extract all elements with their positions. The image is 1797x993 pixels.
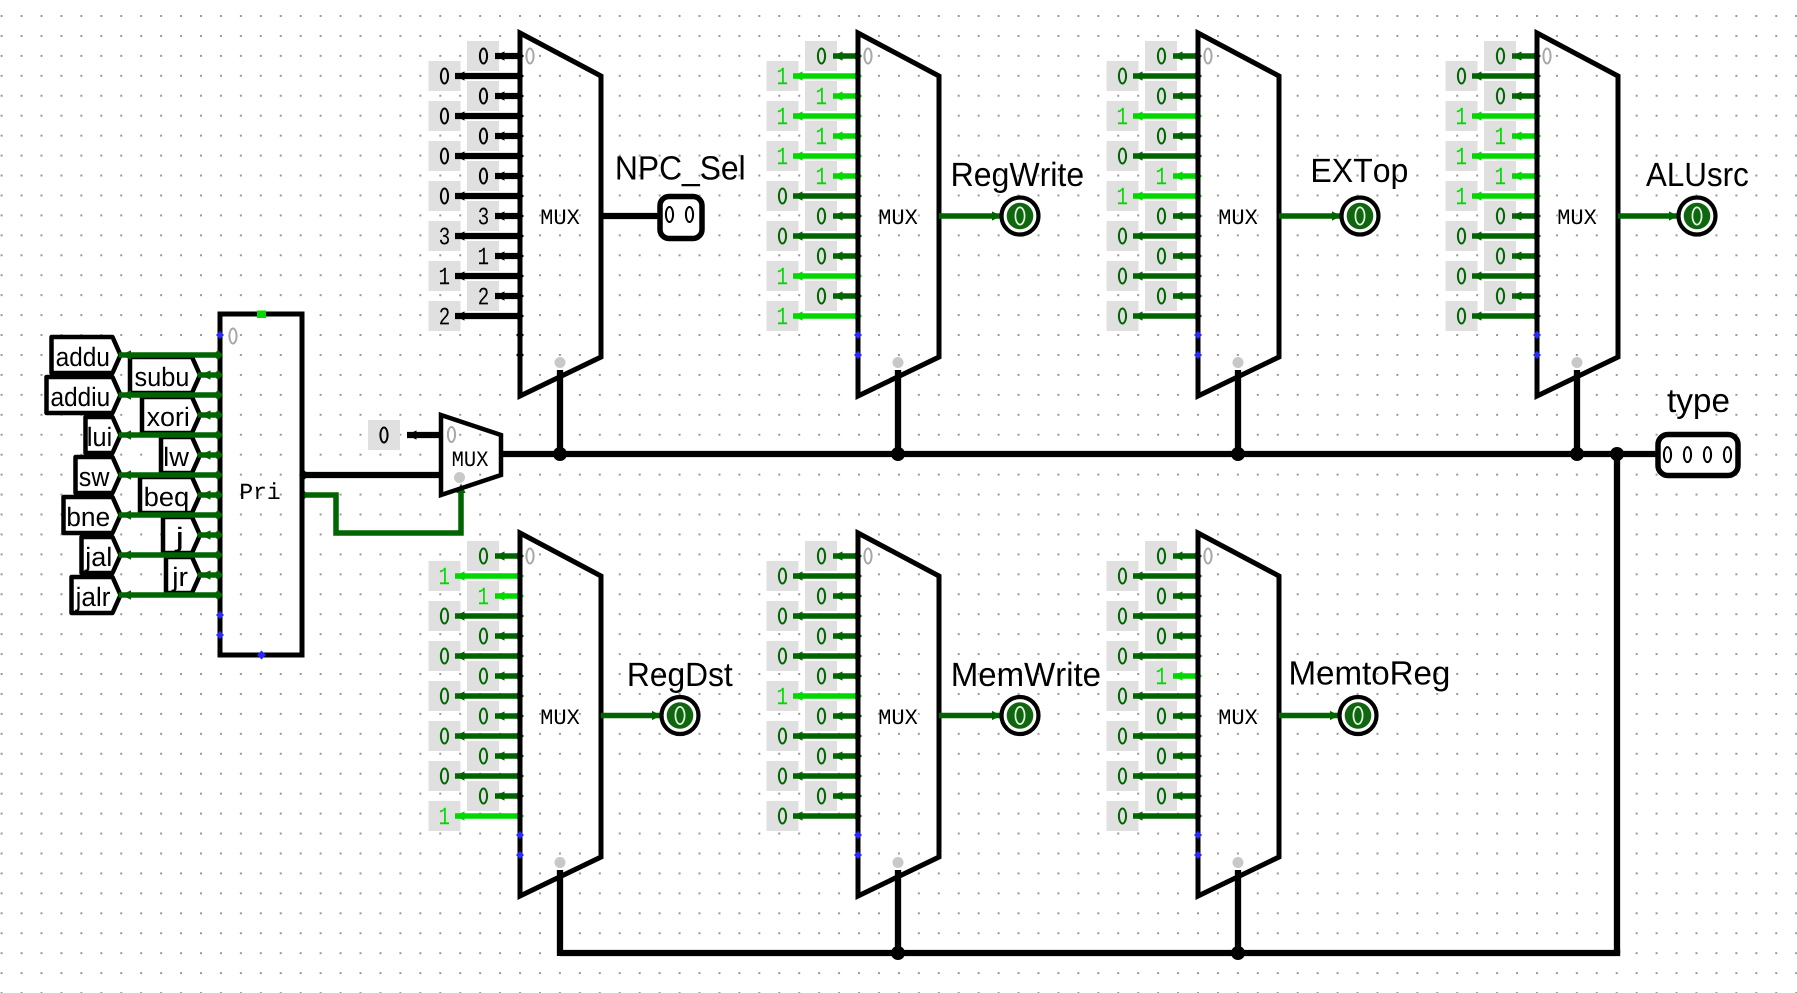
constant 0 (input 10 of MemtoReg mux) bbox=[1145, 741, 1202, 771]
mux U8: small 2-input multiplexer body bbox=[441, 415, 501, 495]
constant 0 (input 6 of NPC_Sel mux) bbox=[467, 161, 524, 191]
junction at NPC_Sel select bbox=[553, 447, 567, 461]
constant 0 (input 10 of EXTop mux) bbox=[1145, 241, 1202, 271]
constant 0 (input 1 of NPC_Sel mux) bbox=[429, 61, 525, 91]
constant 0 (input 3 of RegDst mux) bbox=[429, 601, 525, 631]
constant 1 (input 2 of RegDst mux) bbox=[467, 581, 524, 611]
constant 0 (input 0 of NPC_Sel mux) bbox=[467, 41, 524, 71]
constant 0 (input 10 of RegWrite mux) bbox=[805, 241, 862, 271]
unconnected input stubs of MemtoReg mux bbox=[1194, 831, 1202, 859]
unconnected input stubs of MemWrite mux bbox=[854, 831, 862, 859]
constant 1 (input 5 of ALUsrc mux) bbox=[1446, 141, 1542, 171]
wire: input pin bne to Pri bbox=[119, 510, 224, 520]
constant 0 (input 1 of EXTop mux) bbox=[1107, 61, 1203, 91]
input pin addu bbox=[52, 337, 121, 373]
constant 0 (input 13 of MemtoReg mux) bbox=[1107, 801, 1203, 831]
constant 1 (input 6 of RegWrite mux) bbox=[805, 161, 862, 191]
constant 0 (input 11 of ALUsrc mux) bbox=[1446, 261, 1542, 291]
input pin sw bbox=[76, 457, 121, 493]
wire: select of NPC_Sel mux to type bus bbox=[557, 370, 563, 457]
wire: select of EXTop mux to type bus bbox=[1235, 370, 1241, 457]
constant 1 (input 6 of MemtoReg mux) bbox=[1145, 661, 1202, 691]
wire: input pin jalr to Pri bbox=[119, 590, 224, 600]
Pri top pin (green) bbox=[257, 311, 266, 319]
constant 1 (input 6 of EXTop mux) bbox=[1145, 161, 1202, 191]
constant 0 (input 9 of EXTop mux) bbox=[1107, 221, 1203, 251]
wire: select of RegDst mux to bottom bus bbox=[557, 870, 563, 956]
constant 0 (input 1 of MemWrite mux) bbox=[767, 561, 863, 591]
constant 0 (input 4 of MemWrite mux) bbox=[805, 621, 862, 651]
input pin lw bbox=[161, 437, 200, 473]
constant 1 (input 5 of RegWrite mux) bbox=[767, 141, 863, 171]
constant 0 (input 4 of NPC_Sel mux) bbox=[467, 121, 524, 151]
wire: bottom bus horizontal bbox=[560, 950, 1620, 956]
constant 3 (input 8 of NPC_Sel mux) bbox=[467, 201, 524, 231]
constant 0 (input 9 of RegWrite mux) bbox=[767, 221, 863, 251]
label type bbox=[1668, 390, 1729, 419]
constant 0 (input 2 of EXTop mux) bbox=[1145, 81, 1202, 111]
constant 1 (input 3 of RegWrite mux) bbox=[767, 101, 863, 131]
constant 0 (input 12 of ALUsrc mux) bbox=[1484, 281, 1541, 311]
wire: MemWrite mux output to LED bbox=[939, 711, 1002, 720]
label MemtoReg bbox=[1291, 661, 1448, 691]
wire: RegDst mux output to LED bbox=[601, 711, 662, 720]
constant 0 (input 7 of RegWrite mux) bbox=[767, 181, 863, 211]
mux EXTop: 16-input multiplexer body bbox=[1198, 33, 1279, 396]
wire: Pri output (4-bit) to small mux input 1 bbox=[299, 470, 443, 480]
mux NPC_Sel: 16-input multiplexer body bbox=[520, 33, 601, 396]
constant 0 (input 3 of MemWrite mux) bbox=[767, 601, 863, 631]
unconnected input stubs of EXTop mux bbox=[1194, 331, 1202, 359]
constant 0 (input 12 of MemWrite mux) bbox=[805, 781, 862, 811]
output LED MemWrite (value 0) bbox=[1002, 697, 1039, 734]
constant 1 (input 3 of EXTop mux) bbox=[1107, 101, 1203, 131]
constant 1 (input 13 of RegDst mux) bbox=[429, 801, 525, 831]
constant 0 (input 11 of MemWrite mux) bbox=[767, 761, 863, 791]
input pin bne bbox=[64, 497, 121, 533]
constant 0 (input 0 of MemWrite mux) bbox=[805, 541, 862, 571]
constant 0 (input 9 of MemtoReg mux) bbox=[1107, 721, 1203, 751]
wire: select of MemWrite mux to bottom bus bbox=[895, 870, 901, 956]
constant 0 (input 3 of MemtoReg mux) bbox=[1107, 601, 1203, 631]
wire: select of RegWrite mux to type bus bbox=[895, 370, 901, 457]
constant 2 (input 12 of NPC_Sel mux) bbox=[467, 281, 524, 311]
output LED RegDst (value 0) bbox=[662, 697, 699, 734]
junction at ALUsrc select bbox=[1570, 447, 1584, 461]
wire: input pin addiu to Pri bbox=[119, 390, 224, 400]
constant 0 (input 8 of RegDst mux) bbox=[467, 701, 524, 731]
constant 0 (input 13 of MemWrite mux) bbox=[767, 801, 863, 831]
wire: input pin addu to Pri bbox=[119, 350, 224, 360]
input pin xori bbox=[142, 397, 200, 433]
mux MemtoReg: 16-input multiplexer body bbox=[1198, 533, 1279, 896]
junction at MemWrite select bbox=[891, 946, 905, 960]
unconnected input stubs of RegWrite mux bbox=[854, 331, 862, 359]
constant 0 (input 5 of EXTop mux) bbox=[1107, 141, 1203, 171]
label EXTop bbox=[1313, 159, 1407, 189]
constant 3 (input 9 of NPC_Sel mux) bbox=[429, 221, 525, 251]
constant 0 (input 0 of EXTop mux) bbox=[1145, 41, 1202, 71]
output LED ALUsrc (value 0) bbox=[1679, 198, 1716, 235]
input pin beq bbox=[140, 477, 200, 513]
constant 0 (input 11 of RegDst mux) bbox=[429, 761, 525, 791]
constant 0 (input 3 of NPC_Sel mux) bbox=[429, 101, 525, 131]
constant 0 (input 5 of MemtoReg mux) bbox=[1107, 641, 1203, 671]
constant 0 (input 9 of ALUsrc mux) bbox=[1446, 221, 1542, 251]
constant 0 (input 7 of NPC_Sel mux) bbox=[429, 181, 525, 211]
wire: input pin beq to Pri bbox=[198, 490, 223, 500]
unconnected input stubs of ALUsrc mux bbox=[1533, 331, 1541, 359]
constant 0 (input 6 of MemWrite mux) bbox=[805, 661, 862, 691]
label RegDst bbox=[630, 663, 733, 693]
input pin jal bbox=[82, 537, 121, 573]
wire: input pin lw to Pri bbox=[198, 450, 223, 460]
wire: EXTop mux output to LED bbox=[1279, 211, 1342, 220]
input pin j bbox=[163, 517, 200, 553]
constant 0 (input 8 of RegWrite mux) bbox=[805, 201, 862, 231]
constant 0 (input 11 of EXTop mux) bbox=[1107, 261, 1203, 291]
input pin lui bbox=[86, 417, 121, 453]
constant 1 (input 6 of ALUsrc mux) bbox=[1484, 161, 1541, 191]
constant 0 (input 5 of RegDst mux) bbox=[429, 641, 525, 671]
constant 1 (input 13 of RegWrite mux) bbox=[767, 301, 863, 331]
constant 0 (input 8 of ALUsrc mux) bbox=[1484, 201, 1541, 231]
constant 0 (input 4 of RegDst mux) bbox=[467, 621, 524, 651]
constant 1 (input 1 of RegWrite mux) bbox=[767, 61, 863, 91]
constant 1 (input 7 of ALUsrc mux) bbox=[1446, 181, 1542, 211]
input pin subu bbox=[130, 357, 200, 393]
constant 0 (input 8 of MemtoReg mux) bbox=[1145, 701, 1202, 731]
output LED MemtoReg (value 0) bbox=[1340, 697, 1377, 734]
wire: ALUsrc mux output to LED bbox=[1618, 211, 1679, 220]
input pin addiu bbox=[47, 377, 121, 413]
output pin type (value 0 0 0 0) bbox=[1658, 435, 1738, 476]
junction at bus corner to type bbox=[1610, 447, 1624, 461]
wire: bus vertical right side bbox=[1614, 454, 1620, 953]
constant 1 (input 1 of RegDst mux) bbox=[429, 561, 525, 591]
constant 1 (input 10 of NPC_Sel mux) bbox=[467, 241, 524, 271]
wire: select of ALUsrc mux to type bus bbox=[1574, 370, 1580, 457]
label ALUsrc bbox=[1646, 163, 1748, 186]
constant 0 (input 11 of MemtoReg mux) bbox=[1107, 761, 1203, 791]
priority encoder Pri body bbox=[220, 314, 302, 655]
constant 0 (input 5 of NPC_Sel mux) bbox=[429, 141, 525, 171]
wire: input pin subu to Pri bbox=[198, 370, 223, 380]
constant 1 (input 11 of NPC_Sel mux) bbox=[429, 261, 525, 291]
wire: main type bus horizontal bbox=[501, 451, 1658, 457]
constant 0 (input 0 of MemtoReg mux) bbox=[1145, 541, 1202, 571]
constant 0 (input 2 of MemtoReg mux) bbox=[1145, 581, 1202, 611]
constant 1 (input 7 of MemWrite mux) bbox=[767, 681, 863, 711]
wire: NPC_Sel mux output to probe bbox=[601, 213, 662, 219]
wire: MemtoReg mux output to LED bbox=[1279, 711, 1340, 720]
constant 1 (input 7 of EXTop mux) bbox=[1107, 181, 1203, 211]
constant 0 (input 7 of MemtoReg mux) bbox=[1107, 681, 1203, 711]
unconnected input stubs of NPC_Sel mux bbox=[516, 331, 524, 359]
mux RegDst: 16-input multiplexer body bbox=[520, 533, 601, 896]
constant 1 (input 4 of ALUsrc mux) bbox=[1484, 121, 1541, 151]
junction at MemtoReg select bbox=[1231, 946, 1245, 960]
constant 0 (input 12 of RegDst mux) bbox=[467, 781, 524, 811]
constant 0 (input 12 of RegWrite mux) bbox=[805, 281, 862, 311]
constant 0 (input 10 of RegDst mux) bbox=[467, 741, 524, 771]
constant 1 (input 2 of RegWrite mux) bbox=[805, 81, 862, 111]
wire: select of MemtoReg mux to bottom bus bbox=[1235, 870, 1241, 956]
constant 0 (input 13 of ALUsrc mux) bbox=[1446, 301, 1542, 331]
constant 0 (input 10 of MemWrite mux) bbox=[805, 741, 862, 771]
constant 0 (input 8 of EXTop mux) bbox=[1145, 201, 1202, 231]
constant 0 (input 6 of RegDst mux) bbox=[467, 661, 524, 691]
constant 0 (input 8 of MemWrite mux) bbox=[805, 701, 862, 731]
label RegWrite bbox=[953, 162, 1083, 193]
wire: input pin jal to Pri bbox=[119, 550, 224, 560]
constant 0 (input 4 of EXTop mux) bbox=[1145, 121, 1202, 151]
constant 0 (input 9 of RegDst mux) bbox=[429, 721, 525, 751]
input pin jr bbox=[166, 557, 200, 593]
constant 0 (input 0 of RegWrite mux) bbox=[805, 41, 862, 71]
Pri unconnected input stub 0 bbox=[216, 331, 224, 339]
constant 0 (input 0 of small mux) bbox=[368, 420, 443, 450]
output probe NPC_Sel (value 0 0) bbox=[660, 197, 702, 239]
constant 0 (input 2 of NPC_Sel mux) bbox=[467, 81, 524, 111]
junction at RegWrite select bbox=[891, 447, 905, 461]
label MemWrite bbox=[954, 662, 1100, 687]
mux ALUsrc: 16-input multiplexer body bbox=[1537, 33, 1618, 396]
constant 0 (input 7 of RegDst mux) bbox=[429, 681, 525, 711]
Pri unconnected bottom stubs bbox=[216, 611, 266, 660]
output LED RegWrite (value 0) bbox=[1002, 198, 1039, 235]
input pin jalr bbox=[72, 577, 121, 613]
constant 0 (input 10 of ALUsrc mux) bbox=[1484, 241, 1541, 271]
constant 0 (input 4 of MemtoReg mux) bbox=[1145, 621, 1202, 651]
constant 0 (input 12 of EXTop mux) bbox=[1145, 281, 1202, 311]
wire: input pin sw to Pri bbox=[119, 470, 224, 480]
unconnected input stubs of RegDst mux bbox=[516, 831, 524, 859]
constant 0 (input 13 of EXTop mux) bbox=[1107, 301, 1203, 331]
constant 0 (input 12 of MemtoReg mux) bbox=[1145, 781, 1202, 811]
mux MemWrite: 16-input multiplexer body bbox=[858, 533, 939, 896]
wire: Pri select output to small mux select (green path) bbox=[300, 484, 466, 534]
constant 1 (input 11 of RegWrite mux) bbox=[767, 261, 863, 291]
constant 0 (input 1 of MemtoReg mux) bbox=[1107, 561, 1203, 591]
junction at EXTop select bbox=[1231, 447, 1245, 461]
constant 0 (input 2 of ALUsrc mux) bbox=[1484, 81, 1541, 111]
constant 0 (input 0 of ALUsrc mux) bbox=[1484, 41, 1541, 71]
constant 0 (input 9 of MemWrite mux) bbox=[767, 721, 863, 751]
wire: RegWrite mux output to LED bbox=[939, 211, 1002, 220]
wire: input pin jr to Pri bbox=[198, 570, 223, 580]
constant 1 (input 4 of RegWrite mux) bbox=[805, 121, 862, 151]
constant 0 (input 0 of RegDst mux) bbox=[467, 541, 524, 571]
label NPC_Sel bbox=[618, 155, 744, 186]
constant 2 (input 13 of NPC_Sel mux) bbox=[429, 301, 525, 331]
wire: input pin j to Pri bbox=[198, 530, 223, 540]
constant 1 (input 3 of ALUsrc mux) bbox=[1446, 101, 1542, 131]
constant 0 (input 5 of MemWrite mux) bbox=[767, 641, 863, 671]
wire: input pin lui to Pri bbox=[119, 430, 224, 440]
constant 0 (input 1 of ALUsrc mux) bbox=[1446, 61, 1542, 91]
output LED EXTop (value 0) bbox=[1342, 198, 1379, 235]
constant 0 (input 2 of MemWrite mux) bbox=[805, 581, 862, 611]
wire: input pin xori to Pri bbox=[198, 410, 223, 420]
mux RegWrite: 16-input multiplexer body bbox=[858, 33, 939, 396]
